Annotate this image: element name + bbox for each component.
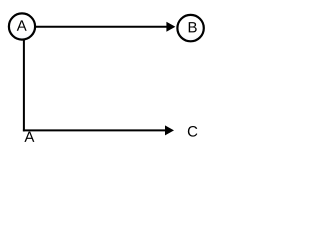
node B label "B" <box>189 22 197 32</box>
node A (circle) <box>9 13 35 39</box>
wire: corner to C (horizontal line) <box>23 129 166 131</box>
arrowhead at C <box>165 125 174 135</box>
arrowhead at B <box>166 22 175 32</box>
node A label "A" <box>17 20 27 30</box>
node C label "C" <box>188 126 197 137</box>
wire: from node A down to corner <box>23 40 25 132</box>
node B (circle) <box>177 15 203 41</box>
corner label "A" <box>24 132 34 142</box>
wire: edge A to B (horizontal line) <box>35 26 167 28</box>
